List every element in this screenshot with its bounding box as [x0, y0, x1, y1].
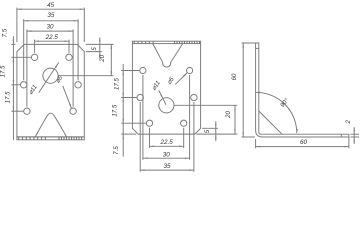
tick on horizontal leg: [340, 134, 342, 137]
svg-text:⌀11: ⌀11: [151, 80, 162, 92]
dim 45: [17, 2, 84, 10]
svg-text:30: 30: [46, 24, 54, 31]
svg-text:35: 35: [164, 163, 172, 170]
hole C1 (low-left, d5): [24, 108, 30, 114]
mid dim 5 line: [215, 121, 216, 141]
label d5 middle view: [166, 75, 176, 85]
left view rib triangle: [35, 113, 66, 137]
svg-text:22.5: 22.5: [159, 139, 173, 146]
svg-text:⌀5: ⌀5: [166, 75, 176, 85]
angle profile outline: [256, 43, 349, 137]
middle view plate outline: [132, 44, 200, 135]
mid dim 30: [143, 151, 190, 159]
svg-text:60: 60: [300, 139, 308, 146]
dim 60 horizontal extension lines: [256, 137, 349, 148]
middle view top flange strip (edge-on leg): [132, 41, 200, 43]
label d11 left view: [27, 84, 38, 96]
mid dim 22.5 extension lines: [150, 128, 184, 148]
middle view strip serration ticks: [134, 41, 199, 43]
dim 2 extension lines: [350, 134, 359, 137]
mid dim 30 extension lines: [143, 75, 190, 160]
leader d5 middle view: [175, 73, 187, 84]
left chain arrows 17.5a: [13, 57, 14, 85]
leader d11 left view: [39, 63, 59, 93]
mid left chain extension bottom: [121, 133, 136, 135]
label d11 middle view: [151, 80, 162, 92]
dim 60 vertical line: [243, 43, 244, 137]
svg-text:20: 20: [99, 54, 106, 62]
mid right chain extension lines: [174, 105, 237, 134]
rib diagonal: [259, 111, 282, 134]
leader d5 left view: [63, 86, 72, 108]
svg-text:30: 30: [163, 151, 171, 158]
mid hole B1 (left, d5): [137, 94, 143, 100]
label 17.5 upper: [0, 65, 6, 77]
label 5: [91, 47, 98, 51]
svg-text:35: 35: [47, 12, 55, 19]
mid hole A2 (bottom-right, d5): [181, 120, 187, 126]
left chain arrows 7.5: [13, 40, 14, 62]
mid hole B2 (right, d5): [191, 94, 197, 100]
svg-text:45: 45: [47, 2, 55, 9]
hole B1 (mid-left, d5): [21, 82, 27, 88]
svg-text:7.5: 7.5: [113, 146, 120, 155]
leader d11 middle view: [159, 91, 166, 105]
90 degree arc: [256, 92, 298, 133]
label 20: [99, 54, 106, 62]
dim 45 extension lines: [17, 8, 84, 42]
dim 60 vertical extension lines: [242, 43, 259, 137]
left view plate outline: [17, 44, 84, 136]
mid dim 35: [140, 163, 194, 171]
left chain arrows 17.5b: [13, 85, 14, 111]
svg-text:17.5: 17.5: [114, 77, 121, 89]
label 17.5 lower: [5, 91, 12, 103]
dim 20 line: [111, 44, 112, 75]
svg-text:5: 5: [91, 47, 98, 51]
middle view rib V-notch: [153, 44, 183, 67]
mid hole C1 (top-left, d5): [140, 67, 146, 73]
center hole d11: [43, 68, 58, 83]
svg-text:17.5: 17.5: [0, 65, 6, 77]
svg-text:2: 2: [345, 119, 352, 124]
svg-text:⌀11: ⌀11: [27, 84, 38, 96]
hole C2 (low-right, d5): [70, 108, 76, 114]
dim 22.5 extension lines: [35, 40, 69, 53]
dim 35: [24, 12, 78, 22]
mid left chain dim line: [122, 64, 124, 157]
mid label 5: [204, 129, 211, 133]
label 2: [345, 119, 352, 124]
dim 30: [27, 24, 73, 32]
label 90deg: [279, 97, 291, 109]
dim 60 horizontal: [256, 139, 349, 147]
dim 2 line: [354, 127, 355, 144]
mid dim 20 line: [234, 105, 235, 134]
dim 35 extension lines: [24, 19, 78, 80]
mid label 17.5 upper: [114, 77, 121, 89]
label 60 vertical: [231, 73, 238, 80]
svg-text:60: 60: [231, 73, 238, 80]
mid center hole d11: [159, 98, 174, 113]
tick on vertical leg: [256, 47, 259, 49]
label d5 left view: [54, 74, 64, 84]
hole B2 (mid-right, d5): [75, 82, 81, 88]
svg-text:20: 20: [225, 111, 232, 119]
dim 30 extension lines: [27, 30, 73, 107]
svg-text:7.5: 7.5: [1, 28, 8, 37]
mid hole A1 (bottom-left, d5): [146, 120, 152, 126]
mid left chain arrows 7.5: [123, 134, 124, 139]
svg-text:5: 5: [204, 129, 211, 133]
mid dim 35 extension lines: [140, 102, 194, 172]
left view bottom flange strip (edge-on leg): [17, 137, 84, 140]
svg-text:17.5: 17.5: [112, 104, 119, 116]
mid left chain extension lines: [121, 71, 146, 124]
hole A1 (top-left, d5): [31, 54, 37, 60]
mid label 17.5 lower: [112, 104, 119, 116]
dim 5 line: [99, 37, 100, 58]
mid left chain arrows a: [123, 71, 124, 98]
mid hole C2 (top-right, d5): [187, 67, 193, 73]
svg-text:22.5: 22.5: [45, 34, 59, 41]
left chain extension lines: [11, 44, 31, 111]
mid dim 22.5: [150, 139, 184, 147]
mid label 20: [225, 111, 232, 119]
mid left chain arrows b: [123, 98, 124, 124]
right chain extension lines: [58, 44, 113, 75]
svg-text:90°: 90°: [279, 97, 291, 109]
mid label 7.5: [113, 146, 120, 155]
label 7.5: [1, 28, 8, 37]
svg-text:17.5: 17.5: [5, 91, 12, 103]
hole A2 (top-right, d5): [66, 54, 72, 60]
left view strip serration ticks: [19, 137, 82, 140]
left chain dim line: [12, 36, 14, 140]
dim 22.5: [35, 34, 69, 42]
